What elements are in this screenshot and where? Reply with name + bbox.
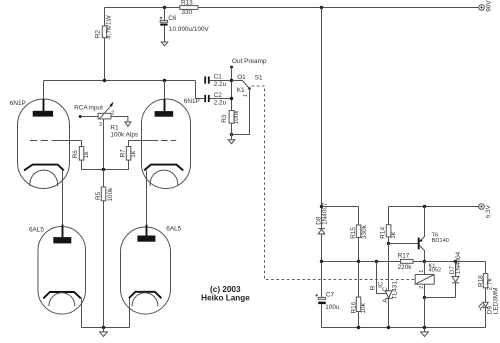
resistor R7 bbox=[104, 141, 138, 170]
tube V4 6AL5 right envelope bbox=[121, 226, 182, 314]
svg-text:2: 2 bbox=[111, 110, 114, 116]
svg-text:C2: C2 bbox=[214, 92, 223, 99]
node dots bottom rail bbox=[357, 326, 426, 329]
node junction at R2 bottom bbox=[103, 79, 106, 82]
tube V3 heater bbox=[49, 293, 75, 306]
svg-text:220k: 220k bbox=[398, 264, 413, 271]
svg-text:1k: 1k bbox=[390, 231, 397, 239]
node base junction bbox=[387, 242, 390, 245]
ground bottom right bbox=[421, 328, 429, 337]
node junction at tube2 anode bbox=[163, 79, 166, 82]
wire control rail y261 bbox=[322, 261, 401, 263]
ground bottom left bbox=[100, 328, 108, 337]
svg-text:10k: 10k bbox=[360, 302, 367, 313]
node junction top rail at D8 column bbox=[320, 6, 323, 9]
svg-text:2: 2 bbox=[419, 286, 425, 289]
node dots on control rail bbox=[320, 260, 378, 263]
svg-text:1k: 1k bbox=[83, 151, 90, 159]
transistor T6 BD140 bbox=[418, 207, 449, 262]
wire cathode U1 to 6AL5 bbox=[62, 170, 64, 225]
node D8 top junction bbox=[320, 205, 359, 208]
svg-text:Out Preamp: Out Preamp bbox=[232, 58, 267, 65]
svg-text:100u: 100u bbox=[325, 304, 340, 311]
svg-text:10.000u/100V: 10.000u/100V bbox=[169, 26, 210, 33]
svg-text:4,7k/1W: 4,7k/1W bbox=[106, 14, 113, 38]
node ground junction left bbox=[102, 326, 105, 329]
svg-text:4052: 4052 bbox=[429, 267, 442, 273]
resistor R15 bbox=[350, 207, 368, 262]
svg-text:A: A bbox=[382, 298, 389, 303]
svg-text:6.3V: 6.3V bbox=[485, 204, 492, 218]
svg-text:C6: C6 bbox=[168, 15, 177, 22]
tube U2 cathode bbox=[144, 165, 183, 171]
svg-text:S1: S1 bbox=[255, 74, 263, 81]
svg-text:RCA input: RCA input bbox=[74, 104, 103, 111]
wire V4 cathode down bbox=[129, 298, 131, 327]
svg-text:1k: 1k bbox=[130, 150, 137, 158]
node grid junction bbox=[102, 168, 105, 171]
wire bottom right rail bbox=[322, 327, 486, 329]
tube V3 cathode bbox=[43, 292, 81, 298]
tube U2 grid bbox=[129, 140, 177, 142]
svg-text:R17: R17 bbox=[398, 252, 410, 259]
resistor R18 bbox=[478, 262, 494, 303]
resistor R16 bbox=[350, 262, 367, 328]
svg-text:C1: C1 bbox=[214, 74, 223, 81]
wire pot wiper down bbox=[103, 119, 105, 170]
svg-text:1N4004: 1N4004 bbox=[455, 251, 462, 274]
svg-text:R13: R13 bbox=[181, 0, 193, 7]
tube U1 6N1P left envelope bbox=[10, 99, 70, 189]
svg-text:R18: R18 bbox=[478, 275, 485, 287]
tube U2 anode bbox=[155, 81, 174, 117]
wire dashed mechanical link bbox=[252, 86, 416, 280]
terminal 6.3V bbox=[479, 204, 492, 219]
svg-text:R16: R16 bbox=[350, 301, 357, 313]
ground under C6 bbox=[161, 42, 168, 46]
svg-text:3: 3 bbox=[99, 122, 102, 128]
capacitor C7 bbox=[315, 262, 340, 328]
tube U2 6N1P right envelope bbox=[142, 98, 200, 188]
svg-text:6N1P: 6N1P bbox=[184, 98, 200, 105]
svg-text:100k: 100k bbox=[233, 110, 240, 125]
svg-text:C7: C7 bbox=[326, 292, 335, 299]
wire cathode U2 to 6AL5 bbox=[146, 170, 148, 225]
svg-text:R6: R6 bbox=[72, 150, 79, 159]
svg-text:330k: 330k bbox=[361, 224, 368, 239]
svg-text:LED3MM: LED3MM bbox=[492, 288, 499, 315]
svg-text:R7: R7 bbox=[119, 149, 126, 158]
wire down to C2 row bbox=[196, 81, 205, 99]
capacitor C1 bbox=[204, 74, 231, 89]
svg-text:100k: 100k bbox=[107, 187, 114, 202]
diode D8 bbox=[315, 8, 328, 262]
resistor R3 bbox=[221, 110, 240, 135]
resistor R13 bbox=[180, 0, 198, 16]
svg-text:R2: R2 bbox=[95, 29, 102, 38]
svg-text:330: 330 bbox=[182, 9, 193, 16]
tube V3 anode bbox=[53, 225, 71, 244]
relay K1 4052 coil bbox=[415, 262, 441, 298]
wire top B+ rail bbox=[105, 7, 479, 9]
svg-text:R5: R5 bbox=[95, 191, 102, 200]
wire base to T6 bbox=[389, 243, 418, 245]
svg-text:Heiko Lange: Heiko Lange bbox=[201, 294, 250, 303]
wire pot to ground bbox=[111, 117, 128, 122]
svg-text:6N1P: 6N1P bbox=[10, 100, 26, 107]
wire V3 cathode down bbox=[81, 298, 83, 327]
svg-text:2.2u: 2.2u bbox=[214, 100, 227, 107]
node junction top rail at C6 bbox=[163, 6, 166, 9]
resistor R14 bbox=[379, 207, 397, 244]
svg-text:K1: K1 bbox=[237, 87, 245, 94]
svg-text:(c) 2003: (c) 2003 bbox=[210, 285, 241, 294]
svg-text:90V: 90V bbox=[485, 0, 492, 12]
svg-text:100k Alps: 100k Alps bbox=[110, 132, 138, 139]
resistor R17 bbox=[398, 252, 425, 270]
tube V4 cathode bbox=[129, 292, 162, 298]
wire 6.3V rail bbox=[389, 206, 479, 208]
capacitor C6 bbox=[160, 8, 210, 43]
svg-text:R1: R1 bbox=[110, 124, 119, 131]
ground under R3 bbox=[228, 135, 235, 144]
svg-text:IC: IC bbox=[378, 281, 385, 288]
node Out Preamp bbox=[230, 58, 267, 136]
svg-text:R14: R14 bbox=[379, 227, 386, 239]
svg-text:O1: O1 bbox=[237, 74, 246, 81]
svg-text:2.2u: 2.2u bbox=[214, 81, 227, 88]
copyright text bbox=[201, 285, 250, 303]
tube U1 grid bbox=[30, 140, 82, 142]
tube U1 cathode bbox=[24, 165, 64, 171]
svg-text:6AL5: 6AL5 bbox=[166, 226, 181, 233]
wire anode rail y80 bbox=[44, 80, 196, 82]
svg-text:6AL5: 6AL5 bbox=[29, 227, 44, 234]
capacitor C2 bbox=[204, 92, 231, 106]
resistor R5 bbox=[95, 170, 114, 328]
resistor R2 bbox=[95, 8, 113, 81]
tube U1 anode bbox=[33, 81, 53, 117]
svg-text:R15: R15 bbox=[350, 227, 357, 239]
wire TL431 ref bbox=[370, 262, 387, 294]
svg-text:R3: R3 bbox=[221, 114, 228, 123]
tube V3 6AL5 left envelope bbox=[29, 227, 86, 315]
node RCA input terminal bbox=[74, 104, 103, 118]
node D7 top junction bbox=[454, 260, 457, 263]
wire bottom left rail bbox=[82, 327, 130, 329]
potentiometer R1 100k Alps bbox=[98, 102, 138, 139]
svg-text:1: 1 bbox=[419, 270, 425, 273]
LED D9 bbox=[478, 288, 500, 328]
tube U2 heater bbox=[150, 170, 178, 186]
svg-text:BD140: BD140 bbox=[432, 238, 449, 244]
tube V4 anode bbox=[137, 225, 155, 242]
relay contact S1 of K1 bbox=[232, 74, 263, 135]
svg-text:R: R bbox=[370, 285, 377, 290]
ground at pot bbox=[125, 122, 131, 127]
resistor R6 bbox=[72, 141, 104, 170]
tube U1 heater bbox=[30, 170, 58, 186]
node emitter junction bbox=[423, 205, 426, 208]
tube V4 heater bbox=[132, 293, 158, 306]
diode D7 bbox=[449, 251, 462, 297]
node coil bottom junction bbox=[423, 296, 456, 328]
svg-text:1: 1 bbox=[243, 94, 249, 97]
IC TL431 bbox=[378, 244, 399, 328]
node relay top junction bbox=[423, 260, 486, 263]
terminal 90V bbox=[479, 0, 493, 12]
svg-text:TL431: TL431 bbox=[392, 281, 399, 300]
